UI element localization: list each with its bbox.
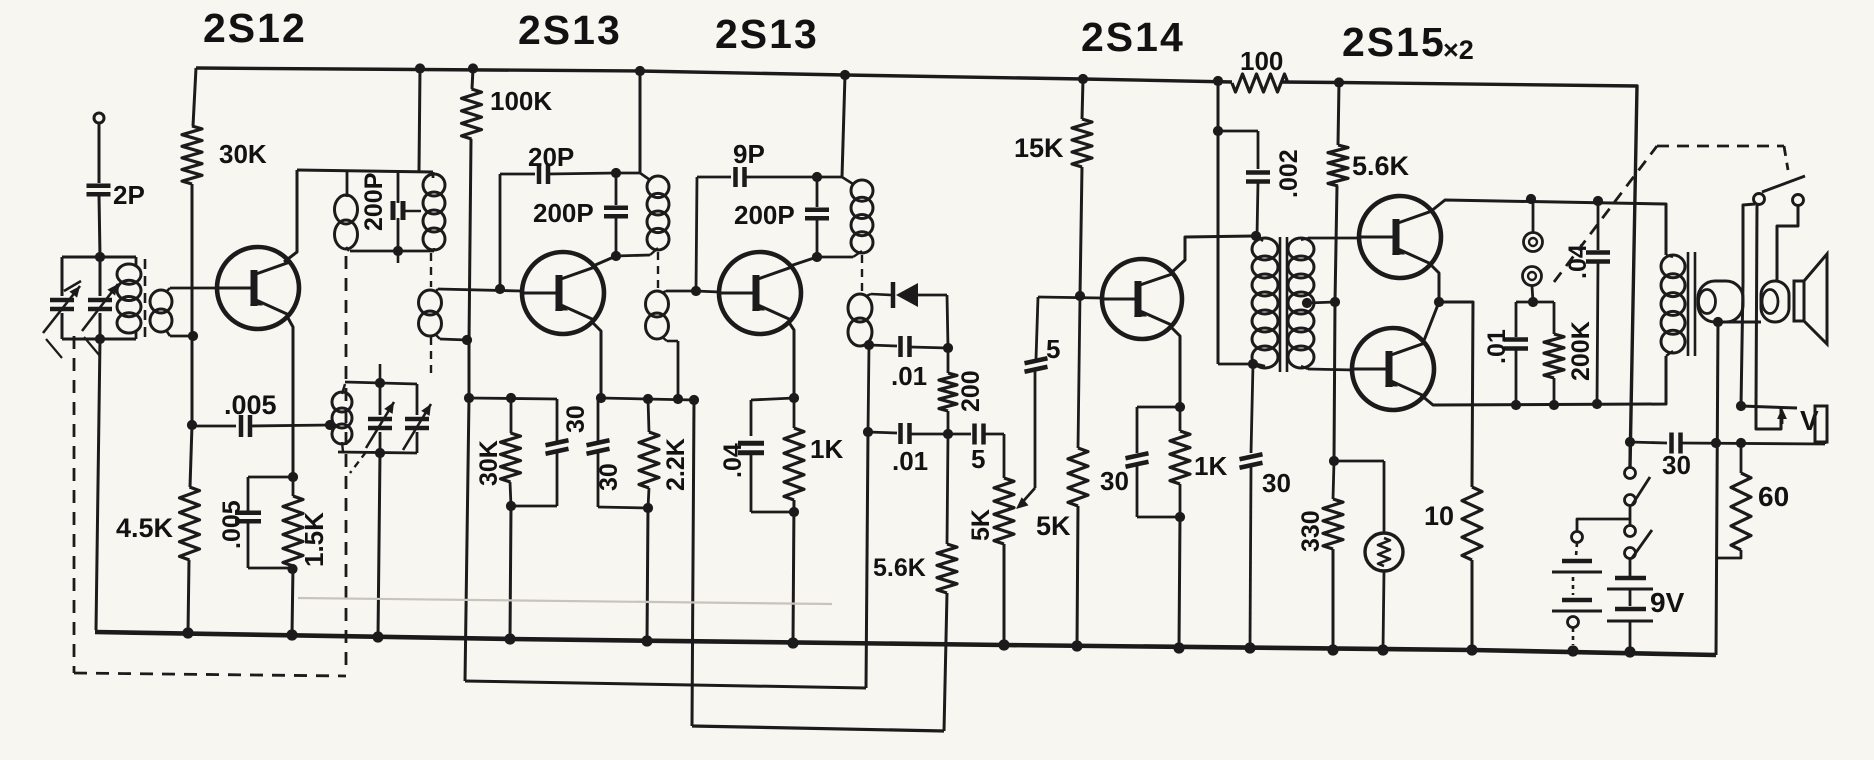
svg-text:.005: .005: [224, 390, 277, 420]
wire to ground: [510, 506, 511, 639]
faint scan line: [298, 598, 832, 604]
wire wiper riser: [1034, 371, 1037, 488]
resistor 4.5K: [180, 487, 200, 560]
switch (phones): [1754, 194, 1765, 205]
coil: output transformer primary: [1661, 255, 1685, 278]
wire osc bottom line: [350, 250, 434, 253]
wire center tap: [1302, 298, 1312, 308]
capacitor 200P (IFT2): [611, 168, 621, 178]
junction: [1466, 644, 1477, 655]
osc tank top wire: [345, 382, 417, 384]
capacitor 2P: [87, 184, 111, 189]
wire tank to ground rail: [378, 453, 380, 637]
svg-text:30: 30: [595, 463, 623, 491]
resistor 330: [1333, 461, 1334, 499]
wire to base 2S13a: [438, 289, 522, 291]
svg-text:2S15: 2S15: [1342, 19, 1446, 65]
resistor 200: [947, 348, 950, 373]
resistor 15K: [1072, 119, 1092, 167]
transistor Q5 2S15 (top): [1359, 196, 1441, 278]
capacitor .01: [1504, 337, 1528, 342]
junction: [1173, 642, 1184, 653]
capacitor .01 (AVC): [863, 427, 873, 437]
capacitor 200P (osc): [397, 172, 400, 203]
junction: [1327, 644, 1338, 655]
dashed gang box: [73, 336, 76, 673]
svg-text:20P: 20P: [528, 142, 574, 172]
svg-text:.01: .01: [1483, 329, 1511, 364]
battery 9V: [1629, 559, 1632, 576]
svg-text:200P: 200P: [734, 200, 795, 230]
wire B+ drop: [1213, 76, 1223, 86]
resistor 60: [1740, 443, 1743, 473]
potentiometer 5K volume: [994, 478, 1014, 544]
wire 4.5K to rail: [188, 560, 189, 633]
wire AVC line: [868, 345, 869, 432]
wire base line: [1038, 297, 1102, 298]
wire switch riser tap: [1629, 442, 1632, 467]
capacitor 20P: [500, 173, 535, 176]
wire 20P riser to base: [499, 174, 502, 289]
svg-text:9V: 9V: [1650, 587, 1685, 618]
capacitor 30 (B+ bypass): [1251, 364, 1253, 453]
wire collector to output node: [1423, 302, 1439, 343]
capacitor 30 (output coupling): [1625, 437, 1635, 447]
junction: [1624, 646, 1635, 657]
svg-text:9P: 9P: [733, 139, 765, 169]
wire collector to driver transformer: [1171, 236, 1254, 273]
coil: voice coil (stadium): [1761, 281, 1789, 322]
capacitor 30: [1126, 453, 1149, 458]
wire collector line: [1430, 200, 1666, 255]
wire VC bottom to secondary bottom: [1718, 321, 1761, 324]
wire 30K from rail: [193, 68, 196, 126]
svg-text:5K: 5K: [967, 509, 995, 541]
svg-text:30: 30: [1662, 450, 1691, 480]
resistor 1K: [793, 398, 796, 428]
svg-text:200P: 200P: [360, 173, 388, 231]
capacitor 5 (audio coupling): [948, 433, 971, 436]
dashed core right: [430, 253, 432, 287]
base bias network 30K || 30: [469, 398, 557, 399]
wire collector: [790, 257, 817, 266]
variable capacitor tank 1: [379, 384, 382, 415]
capacitor .04: [1597, 201, 1600, 250]
transistor Q3 2S13: [719, 252, 801, 334]
transistor Q2 2S13: [522, 252, 604, 334]
variable capacitor (ant, section 2): [99, 257, 102, 296]
switch contact: [1625, 468, 1636, 479]
coil: IFT2 primary: [640, 173, 650, 180]
junction: [641, 635, 652, 646]
svg-text:.002: .002: [1275, 149, 1303, 198]
capacitor .005 (emitter): [248, 476, 293, 479]
wire rail drop to osc: [415, 63, 425, 73]
wire bias line down: [191, 184, 194, 425]
wire riser into feedback coil: [346, 170, 349, 197]
wire base: [696, 291, 719, 292]
svg-text:30: 30: [1100, 466, 1129, 496]
capacitor 5 (wiper to base): [1025, 358, 1048, 363]
resistor 1K: [1179, 407, 1182, 431]
ground rail: [95, 632, 1716, 655]
junction: [182, 627, 193, 638]
svg-text:5K: 5K: [1036, 511, 1071, 541]
wire long AVC vertical: [692, 400, 694, 726]
coil: IFT1 secondary: [419, 290, 442, 315]
wire: rail to battery corner: [1339, 83, 1637, 468]
wire emitter: [1170, 326, 1180, 407]
wire 60/earphone feed: [1741, 283, 1743, 406]
wire 15K from rail: [1078, 74, 1088, 84]
wire phones line: [1756, 204, 1757, 408]
svg-text:60: 60: [1758, 481, 1789, 512]
wire: gang bottom down to ground rail: [96, 339, 100, 630]
junction: [1071, 640, 1082, 651]
coil: osc tank: [332, 392, 352, 412]
svg-text:2S13: 2S13: [518, 7, 622, 53]
variable capacitor (ant, section 1): [61, 257, 64, 296]
wire collector up: [284, 170, 297, 262]
speaker: [1794, 281, 1804, 321]
wire to 4.5K: [190, 425, 192, 487]
wire rail drop IFT3: [840, 70, 850, 80]
diode detector: [891, 282, 896, 308]
coil: IFT3 secondary: [861, 255, 863, 293]
earphone bracket: [1756, 408, 1781, 429]
capacitor .005 (osc coupling): [192, 425, 236, 428]
svg-text:15K: 15K: [1014, 133, 1064, 163]
dashed linkage jack-switch: [1554, 146, 1657, 282]
wire: B+ top rail: [196, 68, 1232, 82]
dashed core long (gang link): [345, 256, 348, 674]
emitter network 30 || 1K: [1137, 406, 1180, 409]
wire antenna lead: [98, 123, 101, 183]
wire AGC feed down: [465, 398, 469, 681]
resistor 10: [1462, 487, 1482, 560]
svg-text:4.5K: 4.5K: [116, 513, 174, 543]
resistor 5.6K: [1328, 145, 1348, 186]
svg-text:30: 30: [562, 405, 590, 433]
svg-text:2S14: 2S14: [1081, 14, 1185, 60]
wire secondary bottom to bias line: [170, 335, 193, 338]
wire speaker return: [1716, 322, 1718, 655]
wire emitter line: [1421, 356, 1666, 405]
resistor 100 (in top rail): [1232, 74, 1288, 92]
resistor 1.5K: [292, 477, 295, 496]
svg-text:.01: .01: [892, 446, 928, 476]
junction: [998, 639, 1009, 650]
wire to voice coil: [1777, 206, 1798, 282]
wire output node down: [1439, 302, 1473, 487]
coil: output secondary (stadium): [1698, 281, 1743, 322]
svg-text:30K: 30K: [475, 440, 503, 486]
wire AVC bottom run: [465, 681, 866, 688]
resistor 100K: [462, 89, 482, 139]
resistor 200K: [1553, 302, 1556, 334]
wire emitter to output node: [1429, 263, 1439, 302]
transformer core: [1279, 237, 1282, 372]
lamp: [1334, 460, 1384, 463]
coil: antenna secondary: [150, 290, 172, 313]
svg-text:330: 330: [1297, 510, 1325, 552]
coil: ferrite antenna primary: [135, 257, 138, 266]
junction: [1244, 642, 1255, 653]
wire collector: [593, 256, 616, 266]
resistor 5.6K (det load): [947, 434, 948, 544]
junction: [1377, 644, 1388, 655]
svg-text:200K: 200K: [1567, 321, 1595, 381]
wire long AVC bottom run: [692, 726, 944, 731]
core (dashed): [144, 259, 147, 344]
wire to base top 2S15: [1308, 237, 1359, 240]
svg-text:10: 10: [1424, 501, 1454, 531]
svg-text:100K: 100K: [490, 86, 552, 116]
svg-text:×2: ×2: [1443, 35, 1474, 65]
resistor 30K: [182, 126, 202, 184]
wire to 330/lamp: [1334, 302, 1335, 461]
svg-text:5: 5: [971, 444, 985, 474]
svg-text:2P: 2P: [113, 180, 145, 210]
svg-text:30: 30: [1262, 468, 1291, 498]
wire osc top line: [297, 170, 433, 172]
junction: [372, 631, 383, 642]
coil: IFT3 primary: [842, 177, 853, 184]
capacitor .04: [738, 441, 764, 446]
wire to base bottom 2S15: [1308, 369, 1354, 370]
svg-text:5.6K: 5.6K: [873, 554, 926, 582]
wire secondary to switch: [1743, 204, 1755, 283]
wire: [99, 195, 100, 257]
wire 5.6K bias: [1334, 77, 1344, 87]
stub below osc node: [397, 251, 400, 263]
tuning gang box bottom: [62, 338, 136, 341]
resistor 2.2K: [648, 399, 649, 432]
variable capacitor tank 2: [416, 384, 419, 415]
resistor 5K (base-gnd): [1078, 296, 1080, 448]
svg-text:5.6K: 5.6K: [1352, 151, 1410, 181]
wire secondary bottom to 100K line: [440, 339, 467, 340]
svg-text:.01: .01: [891, 361, 927, 391]
svg-text:5: 5: [1046, 334, 1060, 364]
capacitor .002: [1218, 130, 1258, 133]
dashed gang linkage: [350, 452, 366, 473]
svg-text:1K: 1K: [810, 434, 843, 464]
coil: driver secondary: [1288, 238, 1314, 260]
transistor Q4 2S14: [1102, 259, 1182, 339]
svg-text:1.5K: 1.5K: [299, 512, 329, 567]
capacitor 30: [556, 399, 559, 441]
wire secondary top to base 2S12: [170, 287, 217, 290]
svg-text:2S12: 2S12: [203, 5, 307, 51]
junction: [1567, 645, 1578, 656]
junction: [504, 633, 515, 644]
wire to battery A: [1577, 519, 1630, 531]
coil: driver primary: [1256, 236, 1263, 241]
switch 2: [1625, 526, 1636, 537]
svg-text:1K: 1K: [1194, 451, 1227, 481]
svg-text:2S13: 2S13: [715, 11, 819, 57]
transformer core: [1687, 252, 1690, 356]
emitter network: wire down: [288, 318, 293, 477]
wire tap to osc coil: [403, 210, 421, 212]
resistor 30K: [501, 433, 521, 482]
wire to base: [1080, 167, 1082, 296]
svg-text:2.2K: 2.2K: [662, 438, 690, 491]
antenna terminal: [94, 113, 104, 123]
svg-text:100: 100: [1240, 46, 1283, 76]
emitter network .04 || 1K: [751, 398, 794, 400]
coil: IFT2 secondary: [657, 252, 659, 290]
svg-text:200: 200: [957, 370, 985, 412]
tuning gang box top: [62, 256, 136, 259]
capacitor .01 (det): [869, 345, 897, 346]
wire emitter: [788, 321, 794, 398]
wire emitter down: [591, 321, 601, 398]
tank bottom wire: [338, 452, 417, 453]
wire 100K from rail: [468, 63, 478, 73]
wire bias line: [469, 139, 471, 342]
battery A cells: [1562, 559, 1592, 564]
svg-text:.005: .005: [218, 500, 246, 549]
junction: [286, 629, 297, 640]
svg-text:30K: 30K: [219, 139, 267, 169]
coil: oscillator winding: [432, 172, 435, 178]
svg-text:200P: 200P: [533, 198, 594, 228]
transistor Q1 2S12: [217, 247, 299, 329]
emitter network 30 || 2.2K: [601, 398, 694, 400]
svg-text:.04: .04: [719, 443, 747, 478]
coil: osc feedback winding: [335, 195, 358, 224]
capacitor 200P (IFT3): [816, 177, 819, 207]
wire rail drop IFT2: [635, 66, 645, 76]
capacitor 30: [587, 440, 610, 445]
capacitor 9P: [696, 177, 697, 291]
transistor Q6 2S15 (bottom): [1352, 328, 1434, 410]
network .01 || 200K: [1516, 301, 1554, 304]
phone jack: [1532, 199, 1535, 232]
junction: [787, 637, 798, 648]
